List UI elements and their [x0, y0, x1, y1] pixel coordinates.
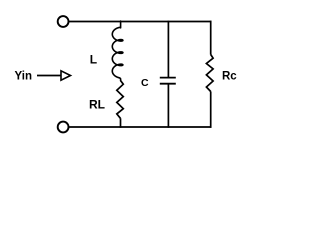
- wire right branch top lead: [210, 21, 212, 55]
- terminal (top input port circle): [58, 16, 69, 27]
- resistor RL (zigzag): [117, 81, 124, 119]
- wire right branch bottom lead: [210, 91, 212, 127]
- capacitor C top plate: [160, 77, 176, 79]
- terminal (bottom input port circle): [58, 122, 69, 133]
- svg-text:Yin: Yin: [15, 71, 32, 83]
- resistor Rc (zigzag): [206, 55, 213, 92]
- svg-text:L: L: [90, 52, 97, 66]
- inductor L (coil with stub from top rail): [112, 21, 123, 81]
- wire capacitor top lead: [167, 21, 169, 78]
- wire bottom rail: [69, 126, 212, 128]
- capacitor C bottom plate: [160, 83, 176, 85]
- wire arrow shaft for Yin: [37, 75, 62, 77]
- wire top rail: [69, 21, 212, 23]
- svg-text:Rc: Rc: [222, 71, 237, 83]
- arrowhead (open triangle) for Yin: [61, 71, 71, 80]
- wire RL bottom stub to bottom rail: [120, 118, 122, 128]
- svg-text:RL: RL: [89, 98, 105, 112]
- wire capacitor bottom lead: [167, 84, 169, 128]
- svg-text:C: C: [141, 77, 149, 89]
